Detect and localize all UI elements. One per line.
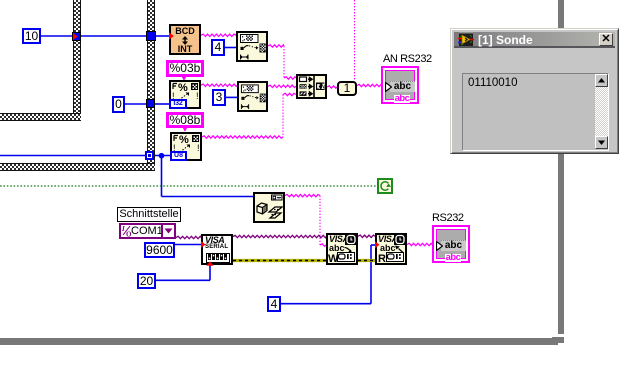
outer while-loop bottom border — [0, 163, 155, 171]
BCD to INT conversion block — [169, 24, 201, 55]
constant 3 — [212, 89, 226, 106]
coercion dot VISA serial baud — [201, 241, 206, 248]
flatten to string — [253, 192, 285, 223]
wire 0 to format I32 — [125, 103, 147, 105]
Schnittstelle label — [117, 207, 181, 222]
U8 type label — [170, 151, 187, 161]
probe icon — [458, 32, 474, 47]
string display — [462, 73, 609, 151]
tunnel outer (10) — [146, 31, 156, 41]
close button — [599, 33, 613, 46]
error wire write to read — [358, 259, 375, 262]
VISA read — [375, 233, 407, 265]
coercion dot VISA serial buffer — [206, 262, 213, 266]
wire VISA read out to RS232 — [407, 243, 432, 245]
string constant %08b — [166, 112, 204, 128]
wire branch to flatten — [161, 156, 163, 197]
COM1 I/O constant — [119, 223, 176, 239]
tunnel outer iteration (hollow) — [145, 151, 154, 160]
wire format I32 out to string-subset 2 — [201, 84, 237, 86]
concatenate strings — [296, 74, 327, 99]
wire string-subset2 out to concat in2 — [268, 85, 296, 87]
loop condition terminal — [377, 178, 393, 194]
wire 3 to string-subset 2 — [226, 96, 237, 98]
wire U8 out to concat in3 — [202, 136, 283, 138]
constant 10 — [22, 28, 41, 44]
wire string-subset1 out to concat in1 — [268, 45, 284, 47]
string constant %03b — [166, 60, 204, 77]
coercion dot VISA read count — [375, 241, 380, 248]
VISA write — [326, 233, 358, 265]
string subset 2 — [237, 81, 268, 112]
constant 1 (rounded) — [337, 81, 357, 96]
diagram window edge: horizontal gray bar — [0, 338, 556, 345]
wire 4 to string-subset 1 — [225, 47, 236, 49]
wire VISA write to read — [358, 235, 375, 237]
format into string I32 — [169, 80, 201, 109]
RS232 string indicator terminal — [432, 225, 470, 263]
wire flatten out down to VISA write — [285, 194, 320, 196]
string subset 1 — [236, 31, 268, 62]
inner while-loop right border — [73, 0, 81, 121]
constant 9600 — [144, 242, 175, 258]
wire %08b into U8 format — [184, 127, 186, 131]
RS232 label — [432, 212, 464, 224]
probe window [1] Sonde — [450, 28, 619, 154]
tunnel inner (10) — [72, 32, 81, 41]
AN RS232 label — [383, 53, 432, 65]
wire probe branch up — [354, 0, 356, 81]
diagram window edge: vertical gray bar — [558, 0, 564, 334]
wire COM1 to VISA serial — [176, 236, 201, 238]
wire 9600 to VISA serial — [175, 244, 201, 246]
scrollbar — [595, 74, 608, 149]
constant 0 — [112, 96, 125, 113]
I32 type label — [169, 99, 187, 109]
wire box1 out to AN RS232 — [357, 84, 382, 86]
constant 20 — [137, 273, 156, 289]
tunnel outer (0) — [146, 99, 155, 108]
coercion dot BCD — [169, 32, 174, 39]
constant 4 (bottom) — [267, 296, 281, 312]
outer while-loop right border — [147, 0, 155, 171]
wire boolean to loop condition — [0, 185, 377, 187]
junction dot — [159, 153, 165, 159]
AN RS232 string indicator terminal — [381, 66, 419, 104]
wire 10 to BCD — [41, 35, 73, 37]
wire 20 to VISA serial — [156, 279, 210, 281]
inner while-loop bottom border — [0, 113, 81, 121]
title bar — [454, 32, 615, 48]
wire %03b into format — [183, 76, 185, 80]
wire 4 to VISA read — [281, 303, 371, 305]
error wire VISA serial to write — [233, 259, 326, 262]
VISA configure serial port — [201, 234, 233, 265]
format into string U8 — [170, 132, 202, 161]
wire VISA serial to write — [233, 235, 326, 237]
wire iteration to U8 block — [0, 155, 146, 157]
constant 4 — [211, 39, 225, 56]
wire concat out to box1 — [327, 86, 337, 88]
wire BCD out to string-subset 1 — [201, 34, 236, 36]
corner piece — [552, 337, 564, 345]
